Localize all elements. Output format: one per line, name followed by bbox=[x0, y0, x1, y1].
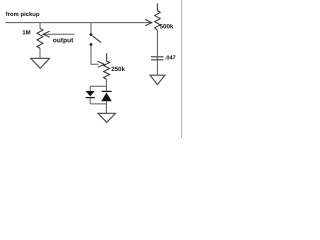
diode D2 (cathode up) triangle bbox=[101, 93, 111, 102]
wire: switch to 250k wiper bbox=[91, 46, 99, 64]
label: 1M bbox=[23, 30, 31, 34]
switch SW1 top contact bbox=[90, 33, 93, 36]
wire: stub from top rail down to switch bbox=[90, 23, 92, 34]
wire: 250k wiper arrowhead bbox=[98, 61, 105, 67]
ground: under 1M pot bbox=[31, 58, 50, 68]
wire: 1M pot bottom lead to ground bbox=[39, 48, 41, 58]
border: page frame right edge bbox=[181, 0, 183, 138]
wire: 1M wiper lead to output bbox=[44, 33, 74, 35]
wire: diode network top rail bbox=[90, 85, 106, 87]
wire: stub from top rail down to 1M pot bbox=[39, 23, 41, 29]
capacitor C1 top plate bbox=[151, 56, 164, 58]
wire: stub to D2 cathode bbox=[105, 86, 107, 91]
wire: 1M wiper arrowhead bbox=[43, 31, 50, 37]
wire: 250k bottom lead down to diode rail bbox=[105, 79, 107, 86]
wire: top signal rail from pickup to 500k wiper bbox=[6, 22, 151, 24]
wire: stub to D1 anode bbox=[89, 86, 91, 91]
wire: 500k bottom lead through capacitor to ground bbox=[156, 31, 158, 76]
label: from pickup bbox=[6, 12, 39, 17]
label: 250k bbox=[111, 67, 125, 72]
diode D1 cathode bar bbox=[86, 97, 95, 99]
wire: bottom rail to ground bbox=[105, 104, 107, 113]
wire: 500k wiper arrowhead bbox=[145, 20, 152, 26]
switch SW1 lever (open) bbox=[92, 36, 101, 43]
wire: D2 anode to bottom rail bbox=[105, 101, 107, 104]
switch SW1 bottom contact bbox=[90, 43, 93, 46]
capacitor C1 bottom plate bbox=[151, 59, 164, 61]
wire: D1 cathode to bottom rail bbox=[89, 98, 91, 104]
wire: diode network bottom rail bbox=[90, 103, 106, 105]
diode D1 (cathode down) triangle bbox=[86, 91, 95, 96]
label: .047 bbox=[165, 55, 175, 59]
resistor R1 1M volume pot body bbox=[37, 28, 43, 48]
resistor R3 500k pot body with floating top stub bbox=[155, 3, 161, 30]
resistor R2 250k pot body with floating top stub bbox=[104, 53, 110, 79]
ground: under capacitor bbox=[150, 75, 165, 84]
label: 500k bbox=[160, 24, 174, 29]
label: output bbox=[53, 38, 73, 44]
diode D2 cathode bar bbox=[102, 90, 112, 92]
ground: under diode network bbox=[98, 113, 116, 122]
